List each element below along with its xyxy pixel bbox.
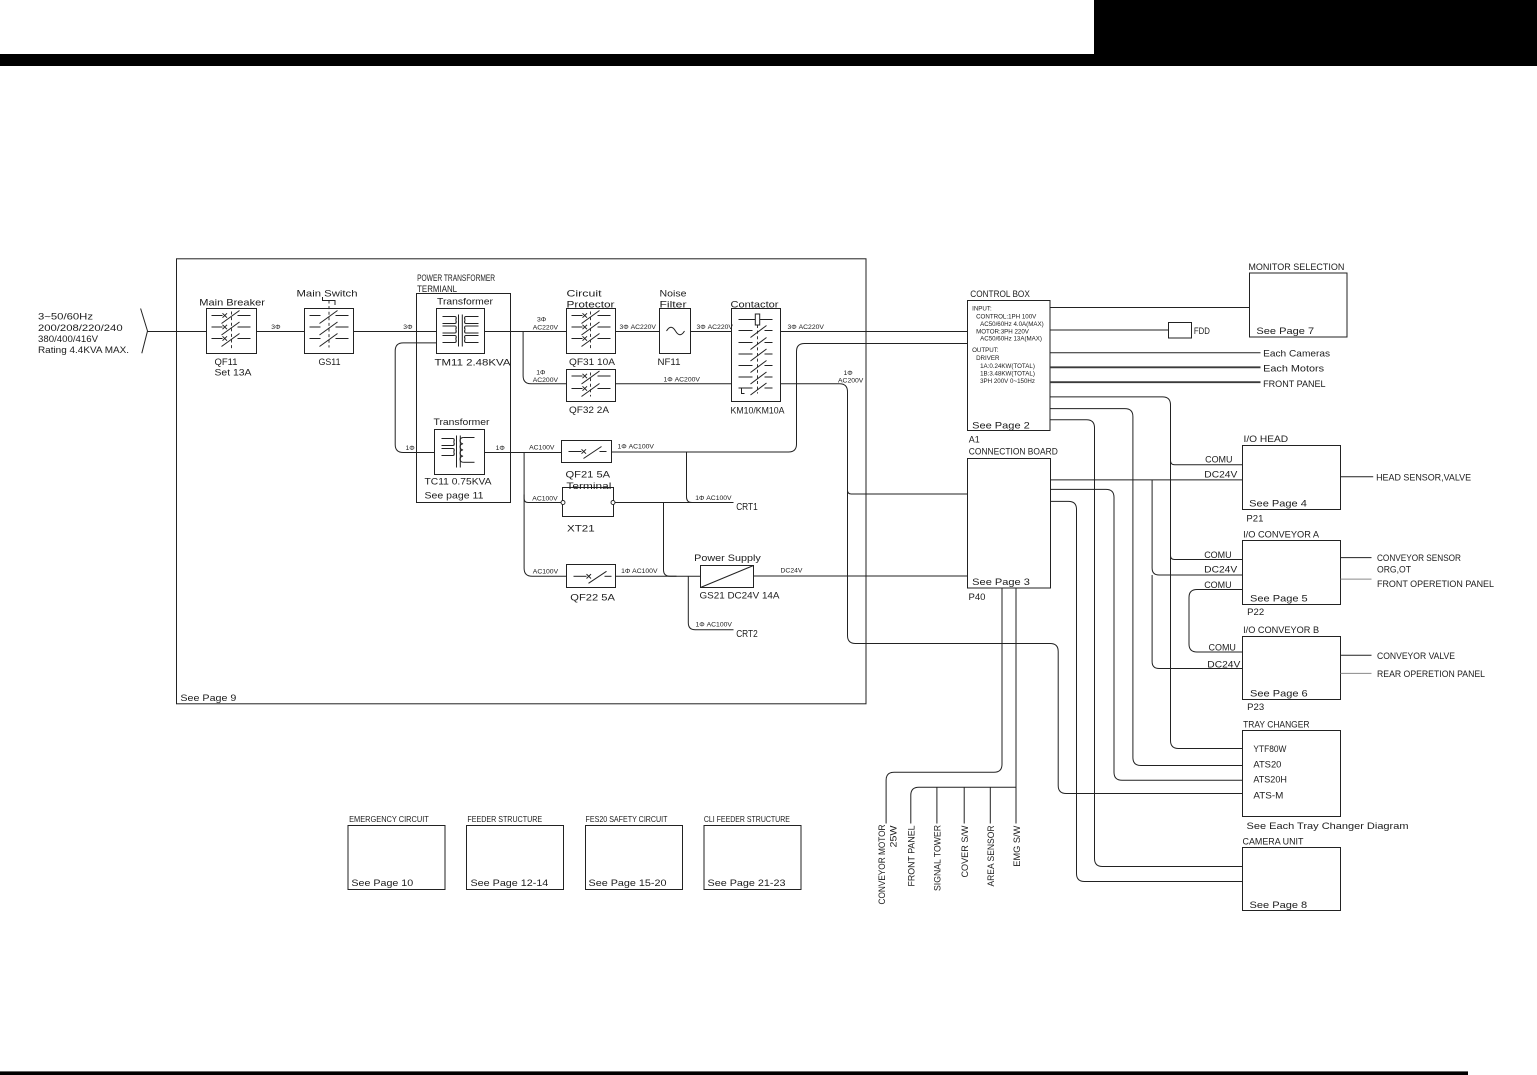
svg-text:1Φ AC100V: 1Φ AC100V	[696, 621, 733, 628]
svg-text:GS11: GS11	[319, 357, 341, 368]
svg-text:See Page 9: See Page 9	[180, 693, 236, 704]
svg-text:3Φ: 3Φ	[403, 324, 413, 331]
svg-text:AC220V: AC220V	[533, 324, 559, 331]
svg-text:See Page 4: See Page 4	[1249, 498, 1307, 509]
svg-text:FES20 SAFETY CIRCUIT: FES20 SAFETY CIRCUIT	[586, 815, 668, 824]
svg-text:CONNECTION BOARD: CONNECTION BOARD	[969, 446, 1058, 457]
svg-text:1Φ AC200V: 1Φ AC200V	[664, 376, 701, 383]
svg-text:A1: A1	[969, 435, 980, 446]
svg-text:Set 13A: Set 13A	[215, 368, 253, 379]
svg-text:380/400/416V: 380/400/416V	[38, 334, 99, 345]
svg-text:See Page 10: See Page 10	[351, 878, 413, 889]
svg-text:See Page 12-14: See Page 12-14	[471, 878, 549, 889]
svg-text:ATS-M: ATS-M	[1253, 791, 1283, 802]
svg-text:Transformer: Transformer	[437, 296, 493, 307]
svg-text:Terminal: Terminal	[566, 481, 611, 492]
svg-text:25W: 25W	[889, 825, 899, 847]
svg-text:3Φ AC220V: 3Φ AC220V	[697, 324, 734, 331]
svg-text:INPUT:: INPUT:	[972, 306, 992, 313]
svg-text:FRONT OPERETION PANEL: FRONT OPERETION PANEL	[1377, 579, 1494, 590]
svg-text:3PH 200V 0~150Hz: 3PH 200V 0~150Hz	[980, 378, 1035, 385]
svg-text:COMU: COMU	[1209, 643, 1236, 653]
svg-text:See Page 15-20: See Page 15-20	[589, 878, 667, 889]
svg-text:EMG S/W: EMG S/W	[1012, 825, 1022, 866]
svg-text:I/O CONVEYOR A: I/O CONVEYOR A	[1243, 529, 1320, 540]
svg-text:See Page 7: See Page 7	[1256, 326, 1314, 337]
svg-text:COVER S/W: COVER S/W	[960, 825, 970, 877]
svg-text:P40: P40	[969, 592, 986, 603]
svg-text:Filter: Filter	[660, 300, 687, 311]
svg-text:MOTOR:3PH 220V: MOTOR:3PH 220V	[976, 329, 1030, 336]
svg-text:3Φ: 3Φ	[271, 324, 281, 331]
svg-text:ATS20: ATS20	[1253, 759, 1281, 770]
svg-text:AC100V: AC100V	[532, 495, 558, 502]
svg-text:1B:3.48KW(TOTAL): 1B:3.48KW(TOTAL)	[980, 371, 1035, 378]
svg-text:200/208/220/240: 200/208/220/240	[38, 323, 123, 334]
svg-text:Main Breaker: Main Breaker	[199, 298, 265, 309]
svg-text:See Each Tray Changer Diagram: See Each Tray Changer Diagram	[1247, 821, 1409, 832]
svg-text:See Page 5: See Page 5	[1250, 594, 1308, 605]
svg-text:Main Switch: Main Switch	[297, 289, 358, 300]
svg-text:See Page 3: See Page 3	[972, 577, 1030, 588]
svg-text:See Page 21-23: See Page 21-23	[708, 878, 786, 889]
svg-text:AC50/60Hz 13A(MAX): AC50/60Hz 13A(MAX)	[980, 336, 1042, 343]
svg-text:QF11: QF11	[215, 357, 238, 368]
svg-text:OUTPUT:: OUTPUT:	[972, 347, 999, 354]
svg-text:DC24V: DC24V	[1207, 659, 1240, 669]
svg-text:CONTROL BOX: CONTROL BOX	[970, 289, 1030, 300]
svg-text:FRONT PANEL: FRONT PANEL	[907, 826, 917, 887]
svg-text:ORG,OT: ORG,OT	[1377, 564, 1411, 575]
svg-text:COMU: COMU	[1204, 580, 1231, 590]
svg-text:1Φ AC100V: 1Φ AC100V	[621, 568, 658, 575]
svg-text:AC200V: AC200V	[533, 377, 559, 384]
svg-text:Protector: Protector	[567, 300, 615, 311]
svg-text:EMERGENCY CIRCUIT: EMERGENCY CIRCUIT	[349, 815, 429, 824]
svg-text:See page 11: See page 11	[425, 490, 484, 501]
svg-text:AREA SENSOR: AREA SENSOR	[986, 825, 996, 886]
svg-text:MONITOR SELECTION: MONITOR SELECTION	[1248, 262, 1344, 273]
svg-text:QF22 5A: QF22 5A	[570, 593, 615, 604]
svg-text:QF32 2A: QF32 2A	[569, 405, 610, 416]
svg-text:AC100V: AC100V	[533, 569, 559, 576]
svg-text:CONVEYOR VALVE: CONVEYOR VALVE	[1377, 651, 1455, 662]
svg-text:CAMERA UNIT: CAMERA UNIT	[1243, 837, 1304, 848]
svg-text:CLI FEEDER STRUCTURE: CLI FEEDER STRUCTURE	[704, 815, 790, 824]
svg-text:Each Cameras: Each Cameras	[1263, 349, 1330, 360]
svg-text:Each Motors: Each Motors	[1263, 363, 1324, 374]
svg-text:QF21 5A: QF21 5A	[566, 470, 611, 481]
svg-text:AC200V: AC200V	[838, 377, 864, 384]
svg-text:DC24V: DC24V	[781, 567, 803, 574]
svg-text:3Φ AC220V: 3Φ AC220V	[788, 324, 825, 331]
svg-text:FRONT PANEL: FRONT PANEL	[1263, 379, 1326, 390]
svg-text:TM11 2.48KVA: TM11 2.48KVA	[435, 358, 512, 369]
svg-text:YTF80W: YTF80W	[1253, 744, 1286, 755]
svg-text:1Φ: 1Φ	[844, 370, 854, 377]
svg-text:3Φ: 3Φ	[537, 317, 547, 324]
svg-text:AC50/60Hz 4.0A(MAX): AC50/60Hz 4.0A(MAX)	[980, 321, 1044, 328]
svg-text:FEEDER STRUCTURE: FEEDER STRUCTURE	[467, 815, 542, 824]
svg-text:HEAD SENSOR,VALVE: HEAD SENSOR,VALVE	[1376, 473, 1471, 484]
svg-text:XT21: XT21	[567, 524, 595, 535]
svg-text:See Page 2: See Page 2	[972, 421, 1030, 432]
svg-text:Contactor: Contactor	[731, 300, 779, 311]
svg-text:1Φ AC100V: 1Φ AC100V	[618, 444, 655, 451]
svg-text:1Φ: 1Φ	[496, 445, 506, 452]
svg-text:1Φ AC100V: 1Φ AC100V	[695, 495, 732, 502]
svg-text:CONVEYOR MOTOR: CONVEYOR MOTOR	[877, 824, 887, 904]
svg-text:1Φ: 1Φ	[536, 370, 546, 377]
svg-text:1A:0.24KW(TOTAL): 1A:0.24KW(TOTAL)	[980, 363, 1035, 370]
svg-text:3~50/60Hz: 3~50/60Hz	[38, 312, 93, 323]
svg-text:P23: P23	[1247, 702, 1264, 713]
svg-text:QF31 10A: QF31 10A	[569, 357, 616, 368]
svg-text:Rating 4.4KVA MAX.: Rating 4.4KVA MAX.	[38, 345, 129, 356]
svg-text:GS21 DC24V 14A: GS21 DC24V 14A	[700, 591, 781, 602]
svg-text:See Page 6: See Page 6	[1250, 689, 1308, 700]
svg-text:KM10/KM10A: KM10/KM10A	[731, 406, 786, 417]
svg-text:ATS20H: ATS20H	[1253, 775, 1287, 786]
svg-text:POWER TRANSFORMER: POWER TRANSFORMER	[417, 273, 495, 284]
svg-text:3Φ AC220V: 3Φ AC220V	[620, 324, 657, 331]
svg-text:P22: P22	[1247, 607, 1264, 618]
svg-text:CONTROL:1PH 100V: CONTROL:1PH 100V	[976, 314, 1037, 321]
svg-text:DC24V: DC24V	[1204, 564, 1237, 574]
svg-text:FDD: FDD	[1194, 326, 1210, 337]
svg-text:DC24V: DC24V	[1204, 470, 1237, 480]
svg-text:CRT1: CRT1	[736, 502, 758, 513]
svg-text:DRIVER: DRIVER	[976, 355, 1000, 362]
svg-text:COMU: COMU	[1204, 550, 1231, 560]
svg-text:Transformer: Transformer	[434, 417, 490, 428]
svg-text:COMU: COMU	[1205, 455, 1232, 465]
svg-text:TC11 0.75KVA: TC11 0.75KVA	[425, 477, 493, 488]
svg-text:TRAY CHANGER: TRAY CHANGER	[1243, 720, 1310, 731]
svg-text:See Page 8: See Page 8	[1250, 900, 1308, 911]
svg-text:P21: P21	[1246, 514, 1263, 525]
svg-text:I/O CONVEYOR B: I/O CONVEYOR B	[1243, 625, 1319, 636]
svg-text:I/O HEAD: I/O HEAD	[1244, 434, 1289, 445]
svg-text:Noise: Noise	[660, 289, 687, 300]
svg-text:1Φ: 1Φ	[406, 445, 416, 452]
svg-text:Circuit: Circuit	[567, 289, 602, 300]
svg-text:NF11: NF11	[658, 357, 681, 368]
svg-text:TERMIANL: TERMIANL	[417, 284, 457, 295]
svg-text:CRT2: CRT2	[736, 629, 758, 640]
svg-text:Power Supply: Power Supply	[694, 553, 761, 564]
svg-text:AC100V: AC100V	[529, 445, 555, 452]
svg-text:REAR OPERETION PANEL: REAR OPERETION PANEL	[1377, 669, 1485, 680]
svg-text:SIGNAL TOWER: SIGNAL TOWER	[933, 825, 943, 891]
svg-text:CONVEYOR SENSOR: CONVEYOR SENSOR	[1377, 553, 1461, 564]
